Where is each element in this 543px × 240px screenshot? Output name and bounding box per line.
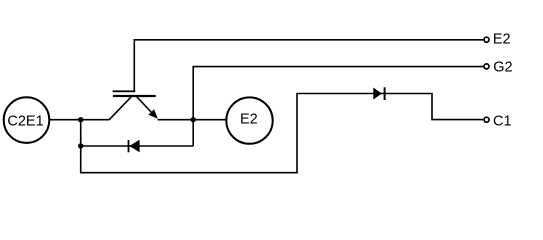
svg-text:G2: G2 — [493, 60, 512, 76]
svg-text:E2: E2 — [240, 112, 258, 128]
svg-text:E2: E2 — [493, 32, 511, 48]
svg-text:C1: C1 — [493, 114, 512, 130]
svg-text:C2E1: C2E1 — [7, 114, 43, 130]
